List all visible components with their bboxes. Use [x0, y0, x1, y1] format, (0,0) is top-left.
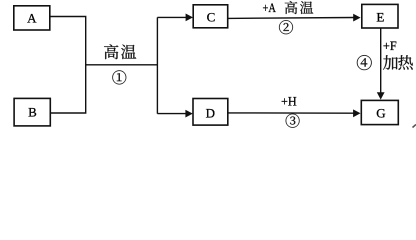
circled 4 [357, 55, 372, 70]
wire E down [380, 28, 382, 93]
circled 3 [286, 114, 300, 128]
arrow to C [157, 14, 193, 22]
arrow to D [157, 110, 192, 118]
svg-text:D: D [206, 105, 215, 120]
circled 2 [279, 20, 293, 34]
box E [362, 4, 398, 28]
stray mark bottom right [413, 125, 416, 128]
label 高温 step 1 [104, 44, 136, 59]
svg-text:+F: +F [383, 39, 397, 53]
circled 1 [112, 70, 126, 84]
wire from A [50, 17, 86, 66]
arrowhead into G [377, 92, 385, 99]
arrow C to E [228, 14, 361, 22]
wire from B [50, 64, 86, 113]
svg-text:C: C [207, 10, 216, 25]
trunk wire to branch [85, 64, 157, 66]
svg-text:G: G [376, 105, 385, 120]
box C [193, 5, 228, 28]
branch vertical wire [156, 17, 158, 113]
svg-text:+H: +H [281, 95, 297, 109]
box B [14, 98, 50, 126]
arrow D to G [228, 109, 361, 117]
svg-text:E: E [376, 10, 384, 25]
label 高温 step 2 [285, 1, 314, 14]
box D [193, 99, 228, 126]
svg-text:+A: +A [263, 1, 276, 15]
label 加热 [383, 55, 413, 70]
svg-text:B: B [28, 104, 37, 119]
box G [361, 100, 398, 124]
svg-text:A: A [27, 10, 37, 25]
box A [14, 6, 50, 30]
